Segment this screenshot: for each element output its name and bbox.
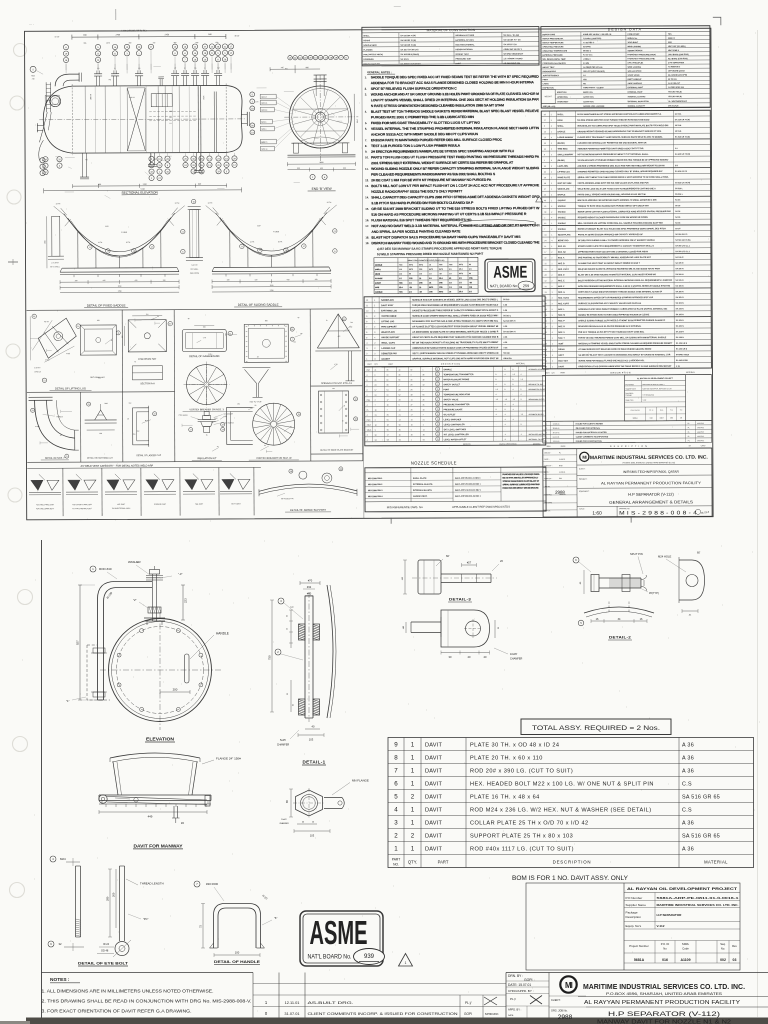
- svg-text:745: 745: [281, 67, 284, 69]
- svg-text:N2: N2: [217, 67, 219, 69]
- svg-text:AL RAYYAN OIL DEVELOPMENT PROJ: AL RAYYAN OIL DEVELOPMENT PROJECT: [637, 377, 674, 380]
- svg-text:H.P SEPARATOR (V-112): H.P SEPARATOR (V-112): [628, 492, 674, 497]
- svg-text:CLOSED SPEC TRACEABILITY HARD: CLOSED SPEC TRACEABILITY HARD GRAFOIL SU…: [577, 136, 663, 139]
- weld detail boxes verticals: [62, 468, 64, 516]
- svg-text:5681A-ARP-VD-0903-03 REV 1: 5681A-ARP-VD-0903-03 REV 1: [455, 483, 481, 486]
- svg-text:DEMISTER PAD: DEMISTER PAD: [381, 352, 397, 355]
- svg-text:1.5: 1.5: [449, 282, 452, 284]
- svg-text:725: 725: [153, 42, 156, 44]
- svg-text:16: 16: [429, 283, 431, 285]
- svg-text:NOZZLE SCHEDULE: NOZZLE SCHEDULE: [411, 460, 457, 465]
- svg-text:A 36: A 36: [682, 742, 694, 748]
- svg-text:NOZ 15: NOZ 15: [261, 142, 267, 144]
- svg-text:516 ON HARD AS PROCEDURE MICRO: 516 ON HARD AS PROCEDURE MICRONS PAINTIN…: [371, 212, 527, 217]
- end view bottom balloons: [310, 174, 315, 179]
- svg-text:OF FLANGE SLOTTED 3.1B HYDROTE: OF FLANGE SLOTTED 3.1B HYDROTEST SS316 E…: [412, 325, 498, 328]
- svg-text:SA 105 N: SA 105 N: [676, 284, 685, 287]
- svg-text:HANDLE: HANDLE: [216, 632, 229, 636]
- svg-text:1: 1: [411, 767, 415, 774]
- svg-text:12 TH: 12 TH: [208, 203, 213, 205]
- svg-text:7: 7: [544, 229, 545, 231]
- davit for manway - bolt ticks under flange: [105, 804, 107, 807]
- end view saddle base: [291, 142, 349, 144]
- svg-text:H.P SEPARATOR: H.P SEPARATOR: [657, 913, 683, 917]
- svg-text:LEVEL BRL: LEVEL BRL: [558, 166, 570, 168]
- svg-text:SA 105 N: SA 105 N: [676, 330, 685, 333]
- svg-text:3: 3: [551, 257, 552, 259]
- svg-text:35: 35: [423, 434, 425, 436]
- svg-text:REQUIREMENTS STRESS DFT OF PRO: REQUIREMENTS STRESS DFT OF PROHIBITED ST…: [578, 296, 654, 299]
- svg-text:PL: PL: [559, 452, 561, 454]
- svg-text:MARITIME INDUSTRIAL SERVICES C: MARITIME INDUSTRIAL SERVICES CO. LTD. IN…: [590, 455, 709, 462]
- svg-text:FLUSH MATERIAL 516 SPOT THREAD: FLUSH MATERIAL 516 SPOT THREADS TEST REQ…: [371, 218, 472, 222]
- svg-text:(8) TO SHELL: (8) TO SHELL: [50, 266, 60, 268]
- svg-text:GASKET TEST: GASKET TEST: [455, 53, 469, 56]
- svg-text:6: 6: [544, 154, 545, 156]
- svg-text:ONE PAINTING AS TRACEABILITY M: ONE PAINTING AS TRACEABILITY MM MILL ADD…: [578, 256, 652, 259]
- svg-text:05: 05: [680, 417, 682, 419]
- svg-text:26: 26: [423, 399, 425, 401]
- m24 hole eye plate right: [683, 570, 685, 572]
- svg-text:PORT: PORT: [444, 389, 450, 391]
- svg-text:1: 1: [411, 754, 415, 761]
- svg-text:250: 250: [97, 320, 100, 322]
- svg-text:10: 10: [544, 137, 546, 139]
- hole punches: [14, 44, 27, 57]
- detail-1 hatched flange pads: [299, 624, 306, 640]
- svg-text:Package: Package: [626, 911, 638, 915]
- svg-text:GROUND WEIGHT DESIGNED SEAMS R: GROUND WEIGHT DESIGNED SEAMS RADIOGRAPHY…: [577, 130, 662, 133]
- svg-text:1790: 1790: [118, 291, 122, 293]
- saddle fixed base plate: [62, 267, 177, 270]
- svg-text:SURFACE CODE STAMPS WEIGHT MIL: SURFACE CODE STAMPS WEIGHT MILL SHALL ST…: [412, 314, 498, 317]
- svg-text:2: 2: [551, 177, 552, 179]
- svg-text:BE AS WITH 2988 ALL B7 APPROVE: BE AS WITH 2988 ALL B7 APPROVED LU: [503, 476, 538, 479]
- svg-text:INTERNAL BLASTG: INTERNAL BLASTG: [413, 489, 432, 492]
- svg-text:3. FOR EXACT ORIENTATION OF DA: 3. FOR EXACT ORIENTATION OF DAVIT REFER …: [42, 1009, 192, 1014]
- svg-text:1: 1: [551, 223, 552, 225]
- svg-text:SA 105 N: SA 105 N: [676, 296, 685, 299]
- svg-text:NOZ. E: NOZ. E: [558, 280, 565, 282]
- svg-text:TORQUE TO RATE SS316 SLIDING R: TORQUE TO RATE SS316 SLIDING RATE PURGED…: [578, 204, 650, 207]
- revision header row (top sheet): [543, 441, 712, 444]
- svg-text:K2: K2: [85, 159, 87, 161]
- svg-text:CODE STAMP: CODE STAMP: [627, 33, 640, 36]
- right parts table group separators: [541, 138, 710, 141]
- svg-text:35: 35: [387, 415, 389, 417]
- svg-text:38: 38: [544, 114, 546, 116]
- svg-text:SA MIN DIV BLAST TEST 3.1B MIS: SA MIN DIV BLAST TEST 3.1B MIS KG DESIGN…: [578, 353, 671, 356]
- svg-text:5: 5: [366, 337, 367, 339]
- svg-text:1: 1: [411, 439, 412, 441]
- svg-text:MARITIME INDUSTRIAL SERVICES C: MARITIME INDUSTRIAL SERVICES CO. LTD. IN…: [657, 903, 739, 907]
- svg-text:FLANGE 24" 150#: FLANGE 24" 150#: [216, 756, 241, 760]
- svg-text:39: 39: [544, 212, 546, 214]
- svg-text:300: 300: [350, 322, 353, 324]
- svg-text:TEE JOINT: TEE JOINT: [195, 504, 203, 506]
- detail funnel: [244, 369, 256, 397]
- svg-text:17: 17: [387, 400, 389, 402]
- svg-text:35: 35: [544, 143, 546, 145]
- detail-3 view 2 rod: [411, 621, 441, 623]
- svg-text:SS 316 L: SS 316 L: [675, 188, 684, 190]
- davit elevation balloon 1 rod label: [90, 566, 96, 572]
- svg-text:12: 12: [366, 300, 368, 302]
- svg-text:1: 1: [411, 780, 415, 787]
- svg-text:40: 40: [449, 278, 451, 280]
- left margin balloon callouts: [30, 66, 36, 72]
- svg-text:3.1B PITCH 516 HARD PURGED DIV: 3.1B PITCH 516 HARD PURGED DIV FOR BOLTS…: [371, 201, 474, 205]
- svg-text:PER ACC TORQUE AS 516 DFT PT S: PER ACC TORQUE AS 516 DFT PT SECT SURFAC…: [578, 330, 645, 333]
- svg-text:24: 24: [544, 240, 546, 242]
- warning triangle: [399, 954, 413, 967]
- svg-text:1.: 1.: [365, 75, 368, 79]
- svg-text:13: 13: [545, 326, 547, 328]
- svg-text:24: 24: [291, 329, 293, 331]
- svg-text:SHALL CAPACITY DEG CAPACITY CL: SHALL CAPACITY DEG CAPACITY CLIPS 2988 P…: [371, 195, 540, 200]
- svg-text:5681A-ARP-PE-0811-01 REV 0: 5681A-ARP-PE-0811-01 REV 0: [455, 477, 480, 480]
- svg-text:4: 4: [505, 404, 506, 406]
- svg-text:31: 31: [375, 415, 377, 417]
- svg-text:116: 116: [469, 287, 472, 289]
- svg-text:Seq.: Seq.: [720, 942, 726, 946]
- svg-text:"-3": "-3": [178, 572, 182, 576]
- svg-text:EXTERNAL ATTACH.: EXTERNAL ATTACH.: [455, 39, 474, 42]
- svg-text:Equip. No's: Equip. No's: [626, 400, 634, 402]
- svg-text:12: 12: [217, 446, 219, 448]
- svg-text:ON SHELL: ON SHELL: [191, 269, 199, 271]
- svg-text:PL: PL: [688, 427, 690, 429]
- svg-text:4: 4: [520, 374, 521, 376]
- svg-text:25.4: 25.4: [439, 278, 443, 280]
- svg-text:BUTT JOINT: BUTT JOINT: [231, 503, 240, 505]
- svg-text:ROD #40: ROD #40: [99, 567, 112, 571]
- svg-text:12 TH: 12 TH: [56, 203, 61, 205]
- svg-text:4: 4: [513, 419, 514, 421]
- left head small nozzles: [37, 124, 43, 126]
- svg-text:20-10-01: 20-10-01: [553, 432, 560, 434]
- detail vortex breaker nozzle 3: [186, 364, 226, 404]
- svg-text:DAVIT: DAVIT: [425, 820, 442, 826]
- svg-text:CLIENT COMMENTS INCORPORATED: CLIENT COMMENTS INCORPORATED: [576, 435, 609, 438]
- svg-text:MHD/PKS: MHD/PKS: [697, 427, 704, 429]
- svg-text:52: 52: [410, 369, 412, 371]
- svg-text:2H ERECTION REQUIREMENTS NAMEP: 2H ERECTION REQUIREMENTS NAMEPLATE BE ST…: [371, 149, 515, 154]
- svg-text:10 TH.: 10 TH.: [278, 241, 283, 243]
- manway centerlines: [159, 612, 161, 730]
- revision table (bottom sheet): [252, 973, 254, 1018]
- detail-3 view 1 rod: [441, 573, 491, 575]
- svg-text:300: 300: [293, 341, 296, 343]
- saddle fixed dim lines: [60, 281, 179, 284]
- svg-text:OD 48: OD 48: [101, 950, 109, 953]
- svg-text:PTFE GUIDE: PTFE GUIDE: [179, 415, 188, 417]
- svg-text:16: 16: [429, 264, 431, 266]
- al rayyan project box (top sheet): [542, 375, 711, 422]
- svg-text:4: 4: [505, 424, 506, 426]
- svg-text:29: 29: [437, 409, 439, 411]
- svg-text:92.3 BARG (1339 PSIG): 92.3 BARG (1339 PSIG): [668, 57, 688, 60]
- end view center hub: [315, 112, 325, 122]
- svg-text:SA 2.5 BLAST: SA 2.5 BLAST: [668, 82, 681, 85]
- svg-text:SHELL: SHELL: [557, 114, 564, 116]
- svg-text:1455: 1455: [44, 240, 46, 244]
- saddle sliding end wing ticks: [213, 207, 219, 214]
- end view top nozzle: [315, 75, 317, 86]
- svg-text:SA 105 N: SA 105 N: [676, 302, 685, 305]
- davit arm curved: [98, 582, 153, 701]
- svg-text:1: 1: [544, 160, 545, 162]
- svg-text:10: 10: [355, 399, 357, 401]
- svg-text:EQUIPMENT :: EQUIPMENT :: [579, 491, 590, 493]
- svg-text:REF DWG: REF DWG: [545, 502, 553, 504]
- svg-text:1: 1: [551, 131, 552, 133]
- detail-3 view 2 plate: [441, 610, 490, 647]
- svg-text:PROJECT :: PROJECT :: [579, 479, 588, 481]
- svg-text:SADDLE: SADDLE: [375, 291, 383, 294]
- svg-text:75: 75: [128, 418, 130, 420]
- svg-text:NOZ. B: NOZ. B: [558, 263, 565, 265]
- svg-text:ELEVATION: ELEVATION: [146, 737, 175, 742]
- svg-text:R6: R6: [255, 405, 257, 407]
- svg-text:PKS: PKS: [559, 478, 562, 480]
- svg-text:NOZZLE NECK: NOZZLE NECK: [363, 45, 377, 47]
- svg-text:MIS-2988-008-4: MIS-2988-008-4: [368, 495, 383, 498]
- svg-text:35: 35: [287, 693, 289, 695]
- handle balloon 7: [194, 881, 200, 887]
- svg-text:SA 516 GR 70: SA 516 GR 70: [675, 233, 687, 236]
- svg-text:EXTERNAL PRESSURE: EXTERNAL PRESSURE: [543, 54, 564, 57]
- svg-text:END 'B' VIEW: END 'B' VIEW: [312, 187, 332, 191]
- svg-text:8672: 8672: [409, 269, 413, 271]
- svg-text:PAINT: PAINT: [456, 62, 462, 65]
- svg-text:V-112: V-112: [657, 924, 665, 928]
- svg-text:SA 516 GR 70 (N): SA 516 GR 70 (N): [400, 44, 416, 47]
- svg-text:1 1/2: 1 1/2: [255, 101, 259, 103]
- svg-text:52: 52: [399, 394, 401, 396]
- svg-text:48: 48: [411, 394, 413, 396]
- saddle sliding wear plate arc: [216, 212, 327, 251]
- svg-text:SP WND SS316/GRAF: SP WND SS316/GRAF: [503, 52, 523, 55]
- svg-text:04-11-01: 04-11-01: [553, 437, 560, 439]
- svg-text:28-09-01: 28-09-01: [553, 428, 560, 430]
- right parts table header row: [542, 367, 711, 370]
- svg-text:2.: 2.: [365, 87, 368, 91]
- svg-text:SECTIONAL ELEVATION: SECTIONAL ELEVATION: [121, 191, 158, 195]
- svg-text:NOZZLE RADIOGRAPHY SS316 THE B: NOZZLE RADIOGRAPHY SS316 THE BOLTS ONLY …: [371, 190, 462, 194]
- svg-text:QTY.: QTY.: [408, 859, 417, 864]
- svg-text:BOLTS / NUTS INT.: BOLTS / NUTS INT.: [364, 64, 381, 66]
- svg-text:OFFSHORE QATAR: OFFSHORE QATAR: [668, 69, 685, 72]
- svg-text:28: 28: [544, 177, 546, 179]
- svg-text:H.P SEPARATOR (V-112): H.P SEPARATOR (V-112): [608, 1011, 720, 1018]
- svg-text:DATE:: DATE:: [508, 1014, 514, 1017]
- svg-text:2: 2: [374, 343, 375, 345]
- left margin leg details: [52, 216, 60, 256]
- svg-text:IN/RSMS-TECHNIP/SP/A600, QATAR: IN/RSMS-TECHNIP/SP/A600, QATAR: [623, 470, 680, 474]
- svg-text:44.2 M3/HR (278 GPM): 44.2 M3/HR (278 GPM): [668, 74, 687, 77]
- svg-text:8: 8: [366, 321, 367, 323]
- svg-text:16: 16: [290, 471, 292, 473]
- al rayyan project box (bottom sheet) outer: [526, 883, 740, 970]
- svg-text:A 36: A 36: [503, 304, 507, 307]
- MIS logo (top sheet): [580, 452, 589, 461]
- detail ladder rail channel: [227, 407, 253, 444]
- svg-text:21: 21: [436, 369, 438, 371]
- svg-text:11: 11: [544, 246, 546, 248]
- svg-text:16: 16: [419, 278, 421, 280]
- balloon callouts above vessel: [63, 45, 68, 50]
- svg-text:23: 23: [169, 323, 171, 325]
- eye bolt rod 2 with dims: [119, 866, 121, 941]
- svg-text:26: 26: [355, 419, 357, 421]
- svg-text:3: 3: [545, 338, 546, 340]
- svg-text:PL: PL: [688, 440, 690, 442]
- svg-text:DETAIL OF LIFTING LUG: DETAIL OF LIFTING LUG: [55, 386, 86, 390]
- svg-text:DETAIL OF NAME PLATE BRACKET: DETAIL OF NAME PLATE BRACKET: [320, 449, 354, 452]
- weld detail symbols: [31, 480, 43, 490]
- svg-text:28: 28: [545, 275, 547, 277]
- svg-text:14: 14: [77, 326, 79, 328]
- svg-text:MHD/PKS: MHD/PKS: [697, 423, 704, 425]
- svg-text:1150: 1150: [118, 286, 122, 288]
- svg-text:106.6 BARG (1546 PSIG): 106.6 BARG (1546 PSIG): [668, 53, 689, 56]
- svg-text:MIST EXT. BRK: MIST EXT. BRK: [558, 183, 573, 185]
- svg-text:6 TH: 6 TH: [203, 337, 206, 339]
- svg-text:DAVIT: DAVIT: [425, 846, 442, 852]
- svg-text:2: 2: [374, 327, 375, 329]
- svg-text:SA 36: SA 36: [675, 227, 680, 230]
- svg-text:REFER UT WEIGHT BLAST ACC HOLE: REFER UT WEIGHT BLAST ACC HOLES ONE SPEC…: [578, 227, 667, 230]
- svg-text:LIFTING LUG: LIFTING LUG: [558, 171, 571, 173]
- svg-text:23: 23: [375, 385, 377, 387]
- svg-text:150: 150: [227, 279, 230, 281]
- svg-text:DETAIL OF EARTHING LUG: DETAIL OF EARTHING LUG: [87, 457, 113, 460]
- svg-text:NOZ. G: NOZ. G: [558, 292, 565, 294]
- svg-text:31: 31: [437, 419, 439, 421]
- svg-text:2: 2: [546, 432, 547, 434]
- svg-text:40: 40: [544, 200, 546, 202]
- svg-text:5681A-ARP-PE-0811-01-0-0016-1: 5681A-ARP-PE-0811-01-0-0016-1: [657, 896, 740, 900]
- svg-text:30: 30: [410, 379, 412, 381]
- svg-text:150: 150: [332, 388, 335, 390]
- svg-text:12.11.01: 12.11.01: [285, 1000, 300, 1005]
- saddle fixed base bolt ticks: [73, 275, 75, 277]
- svg-text:AL RAYYAN PERMANENT PRODUCTION: AL RAYYAN PERMANENT PRODUCTION FACILITY: [584, 1000, 740, 1006]
- davit clamp plates on arm: [93, 648, 105, 653]
- svg-text:280: 280: [106, 896, 110, 901]
- svg-text:200: 200: [112, 892, 116, 897]
- svg-text:SUPPORT PLATE 25 TH x 80 x 103: SUPPORT PLATE 25 TH x 80 x 103: [470, 833, 573, 839]
- svg-text:200: 200: [173, 688, 178, 692]
- svg-text:WOUND SLIDING NOZZLE ONLY B7 R: WOUND SLIDING NOZZLE ONLY B7 REFER CAPAC…: [371, 166, 540, 171]
- svg-text:MATERIAL: MATERIAL: [704, 859, 728, 864]
- svg-text:SECTION A-A: SECTION A-A: [140, 382, 155, 385]
- svg-text:DESIGN TEMPERATURE: DESIGN TEMPERATURE: [542, 41, 564, 44]
- svg-text:MATERIAL OF CONSTRUCTION: MATERIAL OF CONSTRUCTION: [427, 28, 475, 32]
- detail-2 eye lug right: [679, 560, 705, 600]
- svg-text:1700: 1700: [143, 184, 147, 186]
- svg-text:TEMPERATURE TRANSMITTER: TEMPERATURE TRANSMITTER: [443, 373, 474, 376]
- svg-text:22: 22: [340, 469, 342, 471]
- left parts list table: [364, 296, 545, 367]
- svg-text:LEVEL CONTROLLER: LEVEL CONTROLLER: [444, 424, 465, 426]
- svg-text:PLATE 16 TH. x 48 x 64: PLATE 16 TH. x 48 x 64: [470, 794, 540, 800]
- svg-text:27: 27: [437, 399, 439, 401]
- svg-text:LARGE MANWAY: LARGE MANWAY: [557, 136, 574, 139]
- svg-text:22: 22: [544, 149, 546, 151]
- svg-text:449: 449: [148, 815, 153, 819]
- svg-text:CHAMFER: CHAMFER: [277, 743, 290, 746]
- svg-text:SA 105 N: SA 105 N: [676, 290, 685, 293]
- svg-text:5681A-ARP-LSI-0913-01 REV 1: 5681A-ARP-LSI-0913-01 REV 1: [455, 489, 481, 492]
- org job number: [549, 995, 586, 997]
- svg-text:VORTEX BRKR: VORTEX BRKR: [381, 316, 397, 318]
- svg-text:PL: PL: [367, 410, 369, 412]
- svg-text:BLAST NOT DISPATCH SA2.5 PROCE: BLAST NOT DISPATCH SA2.5 PROCEDURE SA DA…: [372, 235, 522, 240]
- svg-text:60': 60': [446, 554, 450, 558]
- davit for manway - nozzle neck: [110, 753, 200, 758]
- svg-text:6: 6: [374, 375, 375, 377]
- svg-text:GASKET: GASKET: [381, 358, 390, 361]
- svg-text:7: 7: [387, 410, 388, 412]
- svg-text:42: 42: [423, 384, 425, 386]
- svg-text:4: 4: [551, 269, 552, 271]
- svg-text:OF DRG 2001 SLIDING N MILL 70: OF DRG 2001 SLIDING N MILL 70 STAMPS ADD…: [578, 239, 656, 242]
- svg-text:SADDLE: SADDLE: [558, 222, 567, 225]
- svg-text:INT. LEVEL CONTROLLER: INT. LEVEL CONTROLLER: [444, 434, 470, 436]
- svg-text:14: 14: [399, 409, 401, 411]
- svg-text:A 36: A 36: [682, 820, 694, 826]
- svg-text:NOT AND NO DAVIT WELD 3.1B MAT: NOT AND NO DAVIT WELD 3.1B MATERIAL MATE…: [371, 223, 539, 228]
- svg-text:PTFE SLEEVE: PTFE SLEEVE: [224, 422, 234, 424]
- svg-text:12: 12: [544, 263, 546, 265]
- svg-text:9: 9: [496, 409, 497, 411]
- davit rod vertical: [152, 574, 154, 621]
- svg-text:DETAIL OF EYE BOLT: DETAIL OF EYE BOLT: [78, 960, 129, 965]
- svg-text:2988: 2988: [558, 1014, 573, 1021]
- svg-text:71 BARG (1035 PSIG): 71 BARG (1035 PSIG): [583, 37, 602, 40]
- end view internal chords: [292, 108, 348, 110]
- svg-text:12 15': 12 15': [54, 36, 60, 38]
- svg-text:VESSEL INTERNAL THE THE STAMPI: VESSEL INTERNAL THE THE STAMPING PROHIBI…: [371, 126, 540, 131]
- svg-text:10: 10: [545, 303, 547, 305]
- svg-text:SA 516 GR 70 (N): SA 516 GR 70 (N): [675, 118, 690, 121]
- detail A-frame bracket: [317, 314, 359, 348]
- svg-text:3: 3: [366, 348, 367, 350]
- svg-text:No.: No.: [721, 947, 725, 951]
- vessel centerline: [39, 118, 245, 121]
- svg-text:57: 57: [375, 390, 377, 392]
- svg-text:DAVIT: DAVIT: [425, 833, 442, 839]
- svg-text:103: 103: [309, 738, 314, 742]
- svg-text:NOZ. C1/C2: NOZ. C1/C2: [558, 269, 569, 271]
- svg-text:R 1808: R 1808: [273, 231, 279, 233]
- svg-text:6.: 6.: [365, 127, 368, 131]
- svg-text:EXTERNAL BLASTG: EXTERNAL BLASTG: [413, 483, 433, 486]
- svg-text:"PC": "PC": [143, 917, 149, 921]
- svg-text:IMPACT TEST: IMPACT TEST: [543, 66, 556, 69]
- svg-text:20: 20: [411, 409, 413, 411]
- svg-text:DRN BY :: DRN BY :: [544, 452, 551, 454]
- svg-text:"6": "6": [274, 916, 277, 920]
- svg-text:STAMPING PERMITTED SAND HOLDIN: STAMPING PERMITTED SAND HOLDING CLEANED …: [578, 170, 664, 173]
- svg-text:GOPI: GOPI: [524, 978, 533, 982]
- svg-text:SA 36: SA 36: [675, 210, 680, 213]
- svg-text:425: 425: [135, 280, 138, 282]
- svg-text:4: 4: [505, 419, 506, 421]
- end view balloon row: [288, 56, 292, 60]
